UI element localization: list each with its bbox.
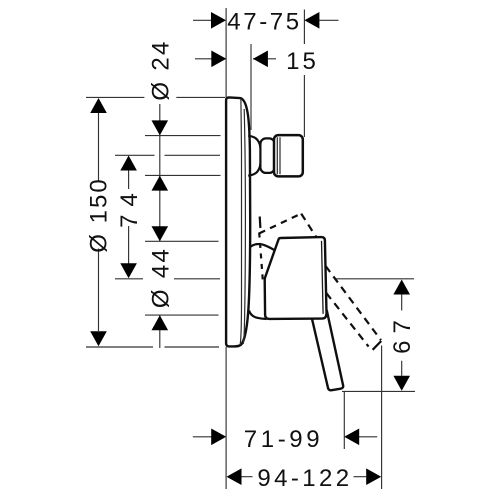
arrow 67 bottom [393, 376, 410, 391]
knob cylinder [274, 135, 303, 176]
wire: plate bottom extension [86, 346, 219, 348]
svg-text:15: 15 [286, 48, 319, 75]
lever (solid position) [312, 311, 343, 391]
dashed hub left edge (alternate position) [259, 233, 263, 281]
wire: dome bottom extension [145, 314, 219, 316]
wire: dashed lever tip vertical extension [381, 346, 383, 490]
wire: wall extension line [225, 8, 227, 489]
dimension line D150 [98, 112, 100, 331]
svg-text:47-75: 47-75 [227, 8, 301, 35]
arrow 47-75 right [304, 12, 319, 29]
arrow D24 top [152, 120, 169, 135]
knob neck [260, 138, 274, 173]
arrow 15 left [211, 51, 226, 68]
arrow 47-75 left [211, 12, 226, 29]
wire: extension line 15mm front [250, 44, 252, 130]
wire: knob top extension [145, 135, 221, 137]
svg-text:74: 74 [116, 185, 143, 228]
wire: knob bottom extension [145, 174, 221, 176]
wire: solid lever tip vertical extension [343, 391, 345, 449]
dashed hub top edge (alternate position) [259, 214, 301, 234]
arrow D44 top [152, 226, 169, 241]
dimension 94-122 tails [241, 476, 366, 478]
escutcheon plate (side view) [226, 97, 250, 346]
wire: handle axis centerline [115, 278, 414, 280]
arrow 94-122 left [227, 468, 242, 485]
wire: lever tip extension [342, 390, 415, 392]
svg-text:Ø 150: Ø 150 [86, 177, 113, 252]
knob cylinder shading lines [277, 137, 280, 174]
handle escutcheon dome bottom curve [249, 311, 267, 320]
dashed lever end cap (alternate position) [373, 341, 382, 350]
dimension 71-99 tails [193, 436, 377, 438]
arrow 71-99 right [344, 429, 359, 446]
arrow 67 top [393, 280, 410, 295]
hub front face inner line [322, 241, 324, 314]
dimension 47-75 tails [193, 19, 339, 21]
handle escutcheon dome top curve [251, 244, 276, 251]
arrow 94-122 right [366, 468, 381, 485]
arrow 74 bottom [120, 263, 137, 278]
handle hub [265, 237, 327, 319]
wire: plate top extension [86, 96, 225, 98]
arrow D150 bottom [90, 331, 107, 346]
arrow 15 right [253, 51, 268, 68]
svg-text:Ø 44: Ø 44 [147, 247, 174, 308]
arrow 74 top [120, 156, 137, 171]
wire: extension line knob front face [303, 10, 305, 138]
dashed rotated-dome edge stub (alternate position) [259, 217, 262, 229]
dimension 15 tails [195, 58, 276, 60]
plate rim inner line 1 [240, 99, 241, 345]
dashed lever lower edge (alternate position) [326, 293, 368, 347]
arrow D44 bottom [152, 315, 169, 330]
wire: dome top extension [145, 240, 219, 242]
svg-text:94-122: 94-122 [257, 465, 352, 492]
plate rim inner line 2 [243, 109, 245, 344]
wire: knob axis centerline [115, 154, 220, 156]
dashed lever upper edge (alternate position) [301, 214, 381, 341]
svg-text:Ø 24: Ø 24 [148, 39, 175, 100]
dimension line D24/D44 [159, 104, 161, 348]
knob escutcheon dome [248, 136, 261, 176]
dimension line 74 [128, 170, 130, 264]
dimension line 67 [401, 295, 403, 376]
svg-text:67: 67 [389, 313, 416, 354]
arrow 71-99 left [211, 429, 226, 446]
arrow D150 top [90, 98, 107, 113]
svg-text:71-99: 71-99 [244, 426, 323, 453]
arrow D24 bottom [152, 176, 169, 191]
